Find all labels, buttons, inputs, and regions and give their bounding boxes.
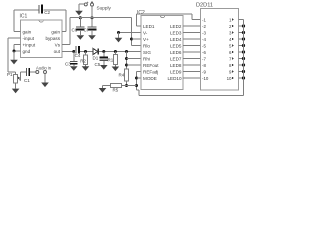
svg-text:LED1: LED1 — [143, 24, 155, 29]
svg-text:R4: R4 — [119, 73, 125, 78]
svg-text:C1: C1 — [24, 78, 30, 83]
svg-text:out: out — [54, 49, 61, 54]
svg-text:C3: C3 — [65, 61, 71, 66]
svg-text:-7: -7 — [202, 56, 206, 61]
svg-text:+input: +input — [23, 42, 36, 47]
svg-text:D1: D1 — [93, 56, 99, 61]
svg-text:LED2: LED2 — [170, 24, 182, 29]
svg-text:V-: V- — [143, 30, 148, 35]
svg-text:LED10: LED10 — [167, 76, 181, 81]
svg-text:REFout: REFout — [143, 63, 159, 68]
svg-text:LED7: LED7 — [170, 56, 182, 61]
svg-text:-2: -2 — [202, 24, 206, 29]
svg-text:gain: gain — [23, 29, 32, 34]
svg-text:IC1: IC1 — [20, 13, 28, 19]
svg-text:R1: R1 — [108, 58, 114, 63]
svg-text:R2: R2 — [80, 58, 86, 63]
svg-text:IC2: IC2 — [137, 10, 145, 16]
svg-text:MODE: MODE — [143, 76, 157, 81]
svg-text:Audio in: Audio in — [36, 65, 52, 70]
svg-text:gain: gain — [51, 29, 60, 34]
svg-text:-4: -4 — [202, 37, 206, 42]
svg-text:C2: C2 — [44, 10, 50, 15]
svg-text:C7: C7 — [84, 28, 90, 33]
svg-text:V+: V+ — [143, 37, 149, 42]
svg-text:-input: -input — [23, 36, 35, 41]
svg-text:Vs: Vs — [55, 42, 61, 47]
svg-text:LED5: LED5 — [170, 43, 182, 48]
svg-text:LED8: LED8 — [170, 63, 182, 68]
svg-text:LED4: LED4 — [170, 37, 182, 42]
svg-text:C6: C6 — [72, 28, 78, 33]
svg-text:R5: R5 — [113, 87, 119, 92]
svg-text:C5: C5 — [95, 62, 101, 67]
svg-text:bypass: bypass — [45, 36, 60, 41]
svg-text:-9: -9 — [202, 69, 206, 74]
svg-text:LED9: LED9 — [170, 69, 182, 74]
svg-text:SIG: SIG — [143, 50, 151, 55]
svg-text:D2D11: D2D11 — [196, 3, 213, 9]
svg-text:LED3: LED3 — [170, 30, 182, 35]
svg-text:Rlo: Rlo — [143, 43, 150, 48]
svg-text:10: 10 — [227, 76, 232, 81]
svg-text:-10: -10 — [202, 76, 209, 81]
svg-text:P1: P1 — [7, 72, 13, 77]
svg-text:-1: -1 — [202, 17, 206, 22]
svg-text:REFadj: REFadj — [143, 69, 158, 74]
svg-text:Supply: Supply — [97, 6, 112, 11]
svg-text:-3: -3 — [202, 30, 206, 35]
svg-text:LED6: LED6 — [170, 50, 182, 55]
svg-text:gnd: gnd — [23, 49, 31, 54]
svg-text:-8: -8 — [202, 63, 206, 68]
svg-text:-5: -5 — [202, 43, 206, 48]
svg-text:Rhi: Rhi — [143, 56, 150, 61]
svg-text:-6: -6 — [202, 50, 206, 55]
